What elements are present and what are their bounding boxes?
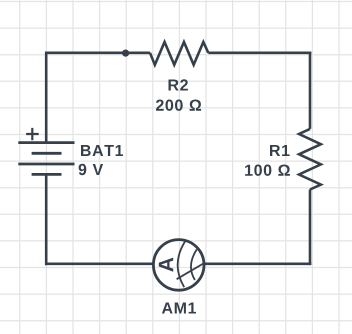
- ammeter letter A: [159, 258, 173, 272]
- battery plus sign: [26, 128, 39, 140]
- wire bottom-right horizontal: [205, 262, 312, 265]
- ammeter dial arc 1: [178, 241, 185, 287]
- label 200 ohm: [156, 100, 201, 111]
- label BAT1: [81, 145, 123, 156]
- wire left vertical upper: [45, 52, 48, 143]
- label AM1: [162, 303, 196, 314]
- junction dot node: [122, 50, 129, 57]
- wire top-left horizontal: [45, 51, 150, 54]
- label R2: [169, 79, 188, 90]
- ammeter needle: [177, 263, 204, 279]
- label 100 ohm: [245, 165, 290, 176]
- battery BAT1 plates: [18, 143, 74, 175]
- resistor R2 zigzag: [150, 42, 208, 65]
- wire right vertical lower: [309, 190, 312, 266]
- wire top-right horizontal: [208, 51, 311, 54]
- wire bottom-left horizontal: [45, 262, 153, 265]
- ammeter dial arc 2: [191, 250, 197, 281]
- label 9 V: [79, 164, 104, 175]
- ammeter AM1 circle: [153, 240, 204, 291]
- label R1: [270, 145, 290, 156]
- wire left vertical lower: [45, 174, 48, 265]
- resistor R1 zigzag: [299, 129, 321, 190]
- wire right vertical upper: [309, 52, 312, 129]
